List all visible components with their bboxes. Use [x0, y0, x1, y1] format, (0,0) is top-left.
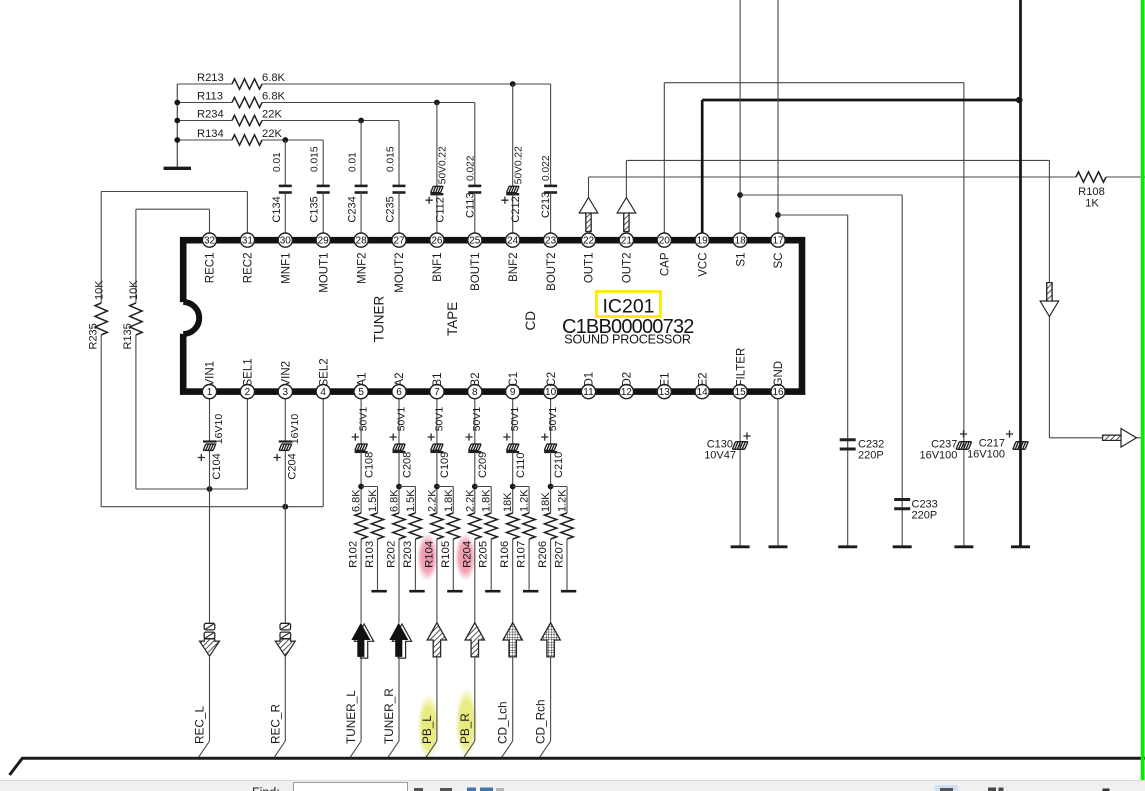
svg-text:30: 30	[280, 235, 292, 246]
svg-text:1.5K: 1.5K	[367, 489, 379, 512]
svg-text:CD: CD	[523, 311, 538, 331]
svg-text:R108: R108	[1078, 186, 1105, 198]
svg-text:50V1: 50V1	[471, 407, 483, 432]
svg-text:SEL1: SEL1	[243, 358, 255, 386]
svg-text:R106: R106	[499, 541, 511, 568]
svg-text:22K: 22K	[262, 108, 282, 120]
svg-text:R235: R235	[88, 323, 100, 349]
svg-text:R203: R203	[402, 541, 414, 568]
svg-text:28: 28	[356, 235, 368, 246]
svg-text:CD_Lch: CD_Lch	[496, 701, 510, 744]
svg-text:1.2K: 1.2K	[519, 489, 531, 512]
svg-text:50V0.22: 50V0.22	[438, 146, 449, 184]
svg-text:20: 20	[659, 235, 671, 246]
svg-text:D1: D1	[584, 372, 596, 387]
svg-text:C204: C204	[287, 453, 299, 479]
svg-text:C2: C2	[546, 372, 558, 387]
svg-text:R134: R134	[197, 128, 224, 140]
svg-text:BOUT1: BOUT1	[470, 253, 482, 291]
svg-text:6: 6	[396, 387, 402, 398]
svg-text:R206: R206	[537, 541, 549, 568]
svg-text:OUT2: OUT2	[622, 253, 634, 284]
svg-text:16V100: 16V100	[919, 450, 957, 462]
svg-text:R135: R135	[122, 323, 134, 349]
svg-text:R202: R202	[386, 541, 398, 568]
svg-text:R104: R104	[423, 541, 435, 568]
svg-text:C235: C235	[385, 196, 397, 222]
svg-text:0.01: 0.01	[272, 152, 283, 172]
svg-text:1K: 1K	[1085, 198, 1099, 210]
svg-text:0.015: 0.015	[310, 146, 321, 172]
svg-text:SOUND PROCESSOR: SOUND PROCESSOR	[564, 332, 691, 346]
svg-text:16V10: 16V10	[289, 414, 301, 445]
svg-text:R204: R204	[461, 541, 473, 568]
svg-text:C234: C234	[347, 196, 359, 222]
svg-text:C110: C110	[515, 453, 527, 478]
svg-text:OUT1: OUT1	[584, 253, 596, 284]
svg-text:15: 15	[735, 387, 747, 398]
svg-text:C134: C134	[271, 196, 283, 222]
svg-text:220P: 220P	[858, 450, 884, 462]
svg-text:27: 27	[393, 235, 405, 246]
svg-text:29: 29	[318, 235, 330, 246]
svg-text:SEL2: SEL2	[318, 358, 330, 386]
svg-text:D2: D2	[622, 372, 634, 387]
svg-text:2: 2	[245, 387, 251, 398]
svg-text:21: 21	[621, 235, 633, 246]
svg-text:S1: S1	[735, 253, 747, 267]
svg-text:50V1: 50V1	[433, 407, 445, 432]
svg-text:R205: R205	[478, 541, 490, 568]
svg-text:E2: E2	[697, 372, 709, 386]
svg-text:REC2: REC2	[243, 253, 255, 284]
svg-text:C1: C1	[508, 372, 520, 387]
svg-text:1: 1	[207, 387, 213, 398]
svg-text:R107: R107	[516, 541, 528, 568]
svg-text:50V0.22: 50V0.22	[513, 146, 524, 184]
svg-text:B2: B2	[470, 372, 482, 386]
svg-text:32: 32	[204, 235, 216, 246]
svg-text:13: 13	[659, 387, 671, 398]
svg-text:SC: SC	[773, 253, 785, 269]
svg-text:16V10: 16V10	[213, 414, 225, 445]
svg-text:10K: 10K	[93, 280, 105, 300]
svg-text:MNF2: MNF2	[356, 253, 368, 284]
svg-text:R103: R103	[364, 541, 376, 568]
svg-text:50V1: 50V1	[547, 407, 559, 432]
svg-text:PB_L: PB_L	[420, 715, 434, 744]
svg-text:16V100: 16V100	[967, 449, 1005, 461]
svg-text:1.8K: 1.8K	[443, 489, 455, 512]
svg-text:1.5K: 1.5K	[405, 489, 417, 512]
svg-text:17: 17	[772, 235, 784, 246]
svg-text:7: 7	[434, 387, 440, 398]
svg-text:TUNER_R: TUNER_R	[382, 688, 396, 744]
svg-text:VIN1: VIN1	[205, 361, 217, 387]
svg-text:MOUT2: MOUT2	[394, 253, 406, 293]
svg-text:R105: R105	[440, 541, 452, 568]
svg-text:E1: E1	[660, 372, 672, 386]
svg-text:C135: C135	[309, 196, 321, 222]
svg-text:C208: C208	[401, 452, 413, 478]
svg-text:IC201: IC201	[602, 295, 654, 317]
svg-text:GND: GND	[773, 361, 785, 387]
svg-text:MNF1: MNF1	[281, 253, 293, 284]
svg-text:A1: A1	[356, 372, 368, 386]
svg-text:31: 31	[242, 235, 254, 246]
svg-text:10V47: 10V47	[704, 450, 736, 462]
svg-text:FILTER: FILTER	[735, 348, 747, 387]
svg-text:REC1: REC1	[205, 253, 217, 284]
svg-text:R102: R102	[348, 541, 360, 568]
svg-text:TUNER_L: TUNER_L	[344, 690, 358, 744]
svg-text:C112: C112	[434, 197, 446, 222]
svg-text:220P: 220P	[912, 510, 938, 522]
svg-text:50V1: 50V1	[509, 407, 521, 432]
svg-text:3: 3	[283, 387, 289, 398]
svg-text:0.022: 0.022	[541, 155, 552, 181]
svg-text:6.8K: 6.8K	[351, 489, 363, 512]
svg-text:C213: C213	[540, 192, 552, 218]
svg-text:MOUT1: MOUT1	[318, 253, 330, 293]
svg-text:BNF2: BNF2	[508, 253, 520, 282]
svg-text:5: 5	[358, 387, 364, 398]
svg-text:25: 25	[469, 235, 481, 246]
svg-text:10K: 10K	[128, 280, 140, 300]
svg-text:19: 19	[697, 235, 709, 246]
svg-text:1.8K: 1.8K	[481, 489, 493, 512]
svg-text:14: 14	[697, 387, 709, 398]
svg-text:R113: R113	[197, 90, 223, 102]
svg-text:R207: R207	[554, 541, 566, 568]
svg-text:18K: 18K	[502, 492, 514, 512]
svg-text:C210: C210	[553, 452, 565, 478]
svg-text:CD_Rch: CD_Rch	[534, 699, 548, 744]
svg-text:TAPE: TAPE	[445, 302, 460, 336]
svg-text:4: 4	[320, 387, 326, 398]
svg-text:REC_R: REC_R	[268, 704, 282, 744]
svg-text:50V1: 50V1	[395, 407, 407, 432]
svg-text:C104: C104	[211, 453, 223, 479]
svg-text:CAP: CAP	[660, 252, 672, 276]
svg-text:23: 23	[545, 235, 557, 246]
svg-text:22K: 22K	[262, 128, 282, 140]
svg-text:TUNER: TUNER	[372, 296, 387, 343]
svg-text:18: 18	[735, 235, 747, 246]
svg-text:B1: B1	[432, 372, 444, 386]
svg-text:C108: C108	[363, 452, 375, 478]
svg-text:VCC: VCC	[697, 253, 709, 277]
svg-text:BNF1: BNF1	[432, 253, 444, 282]
svg-text:R234: R234	[197, 108, 224, 120]
svg-text:0.015: 0.015	[386, 146, 397, 172]
svg-text:Find:: Find:	[252, 786, 280, 791]
svg-text:VIN2: VIN2	[281, 361, 293, 387]
svg-text:6.8K: 6.8K	[389, 489, 401, 512]
svg-text:C209: C209	[477, 452, 489, 478]
svg-text:1.2K: 1.2K	[557, 489, 569, 512]
svg-text:REC_L: REC_L	[193, 706, 207, 744]
svg-text:16: 16	[772, 387, 784, 398]
svg-text:2.2K: 2.2K	[464, 489, 476, 512]
svg-text:2.2K: 2.2K	[426, 489, 438, 512]
svg-text:0.022: 0.022	[465, 155, 476, 181]
svg-text:0.01: 0.01	[348, 152, 359, 172]
svg-text:8: 8	[472, 387, 478, 398]
svg-text:11: 11	[583, 387, 594, 398]
svg-text:26: 26	[431, 235, 443, 246]
svg-text:PB_R: PB_R	[458, 713, 472, 744]
svg-text:24: 24	[507, 235, 519, 246]
svg-text:C109: C109	[439, 452, 451, 478]
svg-text:C212: C212	[510, 196, 522, 222]
svg-text:9: 9	[510, 387, 516, 398]
svg-text:50V1: 50V1	[358, 407, 370, 432]
svg-text:18K: 18K	[540, 492, 552, 512]
svg-text:6.8K: 6.8K	[262, 90, 286, 102]
svg-text:R213: R213	[197, 72, 224, 84]
svg-text:C113: C113	[464, 193, 476, 218]
svg-text:22: 22	[583, 235, 595, 246]
svg-text:BOUT2: BOUT2	[546, 253, 558, 291]
svg-text:A2: A2	[394, 372, 406, 386]
svg-text:12: 12	[621, 387, 633, 398]
svg-text:10: 10	[545, 387, 557, 398]
svg-text:6.8K: 6.8K	[262, 72, 286, 84]
